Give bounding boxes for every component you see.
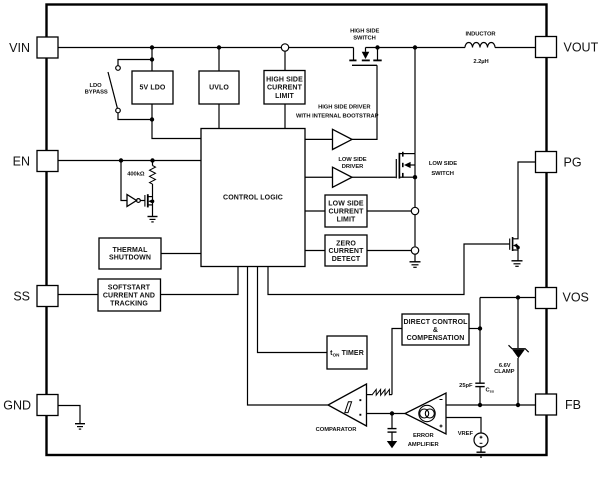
svg-text:LDO: LDO [90,83,103,89]
svg-text:VIN: VIN [9,41,30,55]
svg-text:5V LDO: 5V LDO [140,85,166,92]
svg-text:ZERO: ZERO [336,241,356,248]
svg-text:THERMAL: THERMAL [113,247,149,254]
svg-text:25pF: 25pF [459,383,473,389]
svg-text:DIRECT CONTROL: DIRECT CONTROL [403,319,468,326]
svg-text:WITH INTERNAL BOOTSTRAP: WITH INTERNAL BOOTSTRAP [296,114,379,120]
svg-text:HIGH SIDE DRIVER: HIGH SIDE DRIVER [318,105,371,111]
svg-text:SS: SS [13,289,30,303]
svg-text:LOW SIDE: LOW SIDE [328,201,364,208]
svg-text:BYPASS: BYPASS [85,89,108,95]
svg-text:VREF: VREF [458,431,474,437]
svg-text:VOS: VOS [563,291,589,305]
svg-text:&: & [433,327,438,334]
svg-text:HIGH SIDE: HIGH SIDE [266,77,303,84]
svg-text:VOUT: VOUT [564,41,599,55]
svg-text:LIMIT: LIMIT [337,217,356,224]
svg-text:AMPLIFIER: AMPLIFIER [408,442,440,448]
svg-text:LOW SIDE: LOW SIDE [429,161,457,167]
svg-text:LOW SIDE: LOW SIDE [338,157,366,163]
svg-text:400kΩ: 400kΩ [127,172,145,178]
svg-text:DETECT: DETECT [332,256,361,263]
svg-text:CONTROL LOGIC: CONTROL LOGIC [223,195,283,202]
svg-text:FB: FB [565,398,581,412]
svg-text:CURRENT: CURRENT [329,209,365,216]
svg-text:INDUCTOR: INDUCTOR [465,31,496,37]
svg-text:TRACKING: TRACKING [110,301,148,308]
svg-text:COMPENSATION: COMPENSATION [407,335,465,342]
svg-text:SOFTSTART: SOFTSTART [108,285,151,292]
svg-text:PG: PG [564,156,582,170]
svg-text:UVLO: UVLO [209,85,229,92]
svg-text:2.2µH: 2.2µH [473,59,488,65]
svg-text:CURRENT: CURRENT [329,248,365,255]
svg-text:6.6V: 6.6V [499,363,511,369]
svg-text:SWITCH: SWITCH [431,171,454,177]
svg-text:COMPARATOR: COMPARATOR [316,427,358,433]
svg-text:Css: Css [486,388,495,394]
svg-text:CURRENT AND: CURRENT AND [103,293,155,300]
svg-text:DRIVER: DRIVER [342,164,364,170]
svg-text:ERROR: ERROR [413,433,435,439]
svg-text:HIGH SIDE: HIGH SIDE [350,29,379,35]
svg-text:SHUTDOWN: SHUTDOWN [109,255,151,262]
svg-text:SWITCH: SWITCH [353,36,376,42]
svg-text:CURRENT: CURRENT [267,85,303,92]
svg-text:LIMIT: LIMIT [275,93,294,100]
svg-text:CLAMP: CLAMP [494,369,515,375]
svg-text:EN: EN [13,154,30,168]
svg-text:GND: GND [3,398,31,412]
